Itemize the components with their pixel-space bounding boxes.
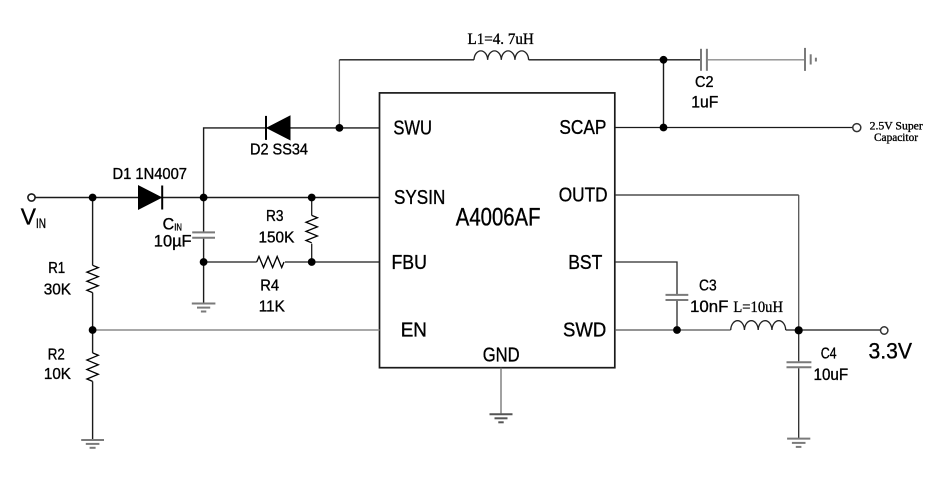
capacitor C4 stem upper [798, 330, 800, 361]
resistor R2 [87, 353, 98, 381]
capacitor CIN plates [192, 231, 215, 233]
wire top-rail riser [338, 60, 340, 128]
svg-text:10µF: 10µF [154, 232, 192, 251]
wire SWD to inductor [615, 329, 731, 331]
IC U1 A4006AF box [380, 93, 615, 368]
wire GND stem [500, 368, 502, 414]
wire FBU right segment [285, 261, 380, 263]
svg-text:BST: BST [568, 252, 602, 274]
wire R2 upper [92, 330, 94, 353]
node junction VIN/R1 [89, 194, 97, 202]
terminal 2.5V super capacitor [853, 124, 861, 132]
inductor L1 [474, 51, 529, 60]
ground CIN [192, 304, 216, 312]
svg-text:30K: 30K [44, 281, 72, 298]
wire EN (grey) [93, 329, 380, 331]
ground C4 [787, 439, 810, 447]
resistor R1 [87, 265, 98, 292]
node junction rail/C2 [660, 56, 668, 64]
node junction R1/R2/EN [89, 326, 97, 334]
svg-text:10nF: 10nF [690, 297, 728, 316]
node junction SYSIN/R3 [308, 194, 316, 202]
resistor R4 [257, 257, 284, 268]
svg-text:L1=4. 7uH: L1=4. 7uH [468, 31, 535, 48]
capacitor CIN stem upper [203, 198, 205, 232]
svg-text:C3: C3 [699, 277, 717, 294]
wire R3 upper [311, 198, 313, 216]
capacitor CIN stem lower to ground [203, 239, 205, 303]
svg-text:IN: IN [36, 215, 46, 231]
diode D1 [139, 186, 162, 209]
wire R3 lower [311, 244, 313, 262]
svg-text:L=10uH: L=10uH [733, 299, 783, 316]
svg-text:R1: R1 [48, 260, 65, 277]
svg-text:SYSIN: SYSIN [394, 187, 445, 209]
capacitor C3 plates [666, 294, 689, 296]
svg-text:1uF: 1uF [691, 92, 718, 111]
wire top rail right of L1 [529, 59, 700, 61]
wire top rail left of L1 [339, 59, 474, 61]
node junction SCAP/riser [660, 124, 668, 132]
capacitor C4 stem lower [798, 368, 800, 438]
svg-text:D2 SS34: D2 SS34 [250, 141, 308, 158]
wire R1 to EN node [92, 293, 94, 330]
capacitor C4 plates [787, 361, 812, 363]
svg-text:SWD: SWD [563, 320, 606, 342]
svg-text:OUTD: OUTD [559, 185, 608, 207]
svg-text:11K: 11K [259, 298, 285, 315]
wire SCAP to terminal [615, 127, 853, 129]
svg-text:SCAP: SCAP [559, 117, 606, 139]
wire FBU left segment [204, 261, 257, 263]
node junction D1/CIN/D2 [200, 194, 208, 202]
wire C3 lower stem [676, 301, 678, 330]
node junction C3/SWD [673, 326, 681, 334]
svg-text:Capacitor: Capacitor [874, 130, 918, 144]
wire R1 upper [92, 198, 94, 266]
svg-text:V: V [21, 204, 37, 230]
wire riser SCAP [663, 60, 665, 128]
terminal VIN [28, 194, 35, 201]
wire C2 to ground (grey) [708, 59, 804, 61]
svg-text:R4: R4 [260, 277, 279, 294]
inductor L2 [731, 321, 786, 330]
wire R2 to ground [92, 381, 94, 439]
ground R2 [81, 440, 104, 448]
ground IC GND [490, 414, 513, 422]
svg-text:R3: R3 [266, 208, 284, 225]
svg-text:R2: R2 [48, 346, 65, 363]
resistor R3 [306, 215, 317, 242]
node junction SWU/top-rail [336, 124, 344, 132]
wire OUTD riser down [798, 195, 800, 330]
svg-text:A4006AF: A4006AF [456, 204, 541, 232]
svg-text:C2: C2 [695, 74, 714, 91]
svg-text:FBU: FBU [392, 252, 427, 274]
wire inductor to 3.3V terminal [786, 329, 881, 331]
node junction R4/R3/FBU [308, 258, 316, 266]
wire BST to C3 [615, 262, 677, 294]
svg-text:150K: 150K [259, 230, 295, 247]
svg-text:SWU: SWU [393, 118, 432, 140]
node junction CIN/FBU [200, 258, 208, 266]
svg-text:10uF: 10uF [814, 365, 849, 384]
svg-text:GND: GND [483, 344, 520, 366]
wire OUTD to riser [615, 194, 799, 196]
capacitor C2 plates [700, 49, 702, 71]
node junction L2/C4/OUTD [795, 326, 803, 334]
svg-text:C: C [163, 214, 175, 233]
svg-text:EN: EN [401, 320, 427, 342]
terminal 3.3V [881, 327, 888, 334]
ground C2 (rotated right) [805, 48, 816, 71]
svg-text:10K: 10K [44, 366, 71, 383]
svg-text:C4: C4 [821, 345, 837, 362]
diode D2 (points left) [267, 116, 290, 140]
svg-text:3.3V: 3.3V [869, 338, 913, 363]
wire node up to SWU line [204, 128, 380, 198]
wire VIN input to SYSIN pin [35, 197, 379, 199]
svg-text:D1 1N4007: D1 1N4007 [113, 166, 188, 183]
